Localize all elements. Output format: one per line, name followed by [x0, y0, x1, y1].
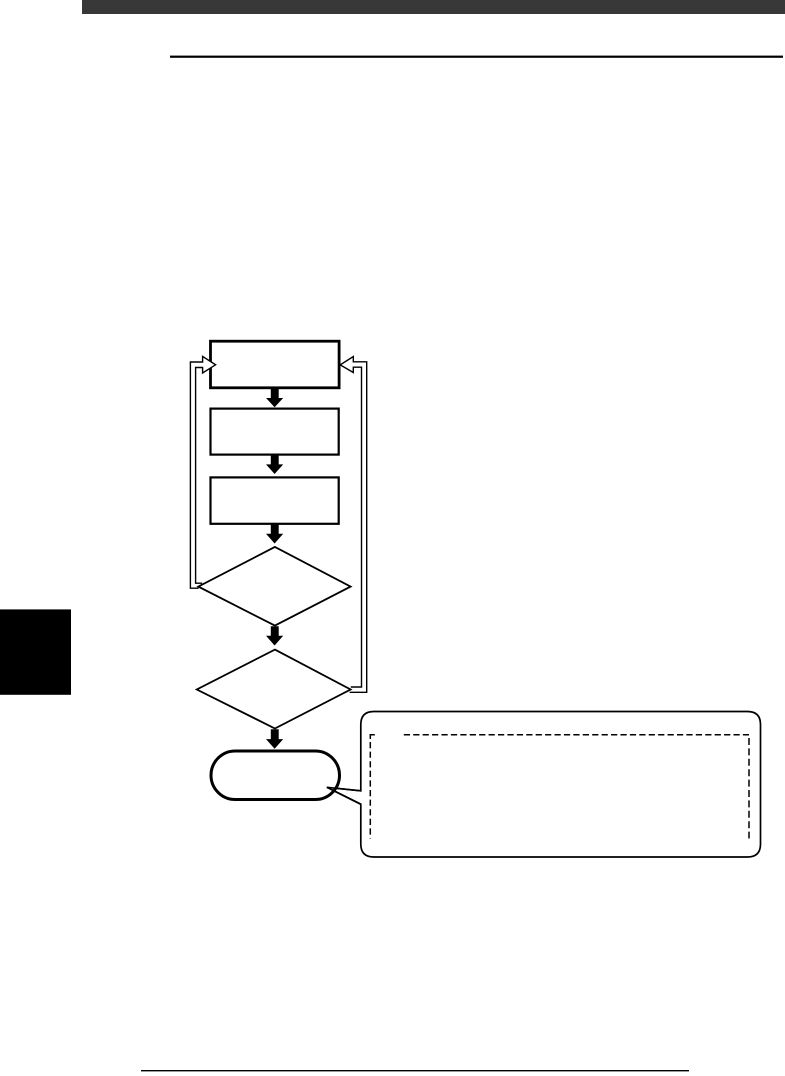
dashed top horizontal — [404, 734, 749, 736]
loop ribbon right (outline arrow into box1 right) — [340, 357, 367, 693]
process box 1 — [211, 341, 340, 388]
callout box with tail — [327, 712, 761, 858]
top rule — [170, 56, 783, 58]
loop ribbon left (outline arrow into box1 left) — [190, 356, 215, 588]
arrow diamond2 to terminator — [266, 729, 283, 749]
process box 2 — [211, 409, 339, 455]
decision diamond 2 — [197, 650, 351, 729]
decision diamond 1 — [198, 547, 350, 626]
header bar — [82, 0, 785, 14]
side tab — [0, 609, 71, 694]
arrow diamond1 to diamond2 — [266, 626, 283, 645]
process box 3 — [211, 477, 339, 523]
arrow box2 to box3 — [266, 455, 283, 474]
arrow box3 to diamond1 — [266, 524, 283, 544]
dashed corner top-left — [370, 735, 375, 739]
callout tail lower line — [327, 787, 361, 804]
dashed right vertical — [748, 738, 750, 839]
bottom rule — [141, 1070, 689, 1071]
arrow box1 to box2 — [266, 388, 283, 407]
terminator (stadium) — [211, 751, 340, 800]
callout tail upper line — [327, 787, 361, 791]
dashed left vertical — [369, 742, 371, 839]
